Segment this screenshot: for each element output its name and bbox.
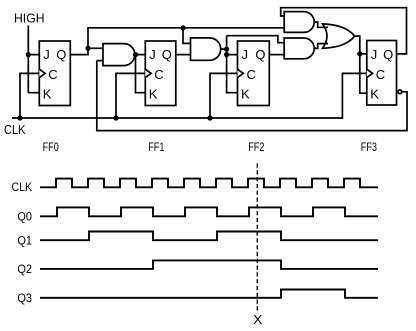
flip-flop FF3 [367,41,397,106]
wire FF1 J-K tie [136,55,146,93]
svg-text:C: C [48,67,57,82]
wire HIGH to J and K of FF0 [28,26,39,93]
CLK waveform [40,179,378,188]
FF1 clock triangle [145,69,151,77]
wire NOT-Q3 feedback bottom rail to gate A [97,61,407,131]
svg-text:J: J [242,47,249,62]
junction G1 output [133,52,138,57]
flip-flop FF1 [145,41,176,106]
svg-text:J: J [43,47,50,62]
wire FF2 Q to gate D bottom input [269,54,284,56]
svg-text:FF1: FF1 [148,140,164,154]
wire G3 output to OR input [314,22,328,27]
junction Q0 at gate A branch [85,46,90,51]
svg-text:K: K [43,87,52,102]
junction at FF0 J [26,52,31,57]
wire CLK to FF2 C [210,73,238,118]
wire CLK to FF1 C [116,73,145,118]
svg-text:C: C [247,67,256,82]
svg-text:CLK: CLK [12,180,33,194]
wire Q0 branch to gate A top input [88,47,103,49]
wire Q0 output and top rail to gate C [70,28,284,55]
svg-text:J: J [149,47,156,62]
marker X dashed line [256,164,258,312]
wire FF3 J-K tie [360,54,367,93]
svg-text:X: X [253,312,263,327]
Q1 waveform [40,232,378,241]
wire Q0Q1 rail to gate D top input [227,36,285,43]
svg-text:K: K [370,87,379,102]
svg-text:Q0: Q0 [17,210,32,224]
flip-flop FF2 [238,41,270,106]
FF0 clock triangle [39,69,45,77]
junction G2 output [224,47,229,52]
wire G1 output to FF1 J [135,54,146,56]
svg-text:C: C [376,67,385,82]
wire G5 output to FF3 J [355,36,367,54]
junction FF3 J [357,51,362,56]
flip-flop FF0 [39,41,70,106]
svg-text:FF2: FF2 [248,140,264,154]
junction Q0 rail at gate B branch [180,25,185,30]
svg-text:FF3: FF3 [361,140,377,154]
FF3 NOT-Q bubble [398,90,402,94]
wire Q3 feedback top rail to gate C top input [281,8,407,54]
Q3 waveform [40,290,378,298]
AND gate G1 [103,44,135,66]
svg-text:Q3: Q3 [17,291,32,305]
svg-text:HIGH: HIGH [14,12,45,26]
FF2 clock triangle [238,69,244,77]
svg-text:FF0: FF0 [43,140,59,154]
svg-text:C: C [154,67,163,82]
svg-text:Q: Q [255,47,265,62]
AND gate G2 [191,38,221,60]
wire CLK to FF0 C [20,73,39,118]
svg-text:Q2: Q2 [17,262,32,276]
wire CLK rail to FF3 C [12,73,367,118]
junction CLK at FF1 branch [113,115,118,120]
junction CLK at FF2 branch [207,115,212,120]
Q2 waveform [40,260,378,269]
junction CLK at FF0 branch [17,115,22,120]
wire G2 output to FF2 J-K tie [221,36,238,93]
svg-text:Q: Q [383,47,393,62]
svg-text:J: J [371,47,378,62]
AND gate G4 [284,38,314,59]
junction FF2 J [224,52,229,57]
wire FF1 Q to gate B bottom input [176,54,191,56]
wire Q0 rail branch to gate B top input [183,28,191,44]
Q0 waveform [40,207,378,216]
svg-text:Q: Q [56,47,66,62]
svg-text:K: K [149,87,158,102]
svg-text:CLK: CLK [4,123,26,137]
svg-text:Q: Q [162,47,172,62]
wire G4 output to OR input [314,44,328,49]
FF3 clock triangle [367,69,373,77]
AND gate G3 [284,12,314,33]
svg-text:K: K [241,87,250,102]
svg-text:Q1: Q1 [17,233,32,247]
OR gate G5 [323,24,355,48]
